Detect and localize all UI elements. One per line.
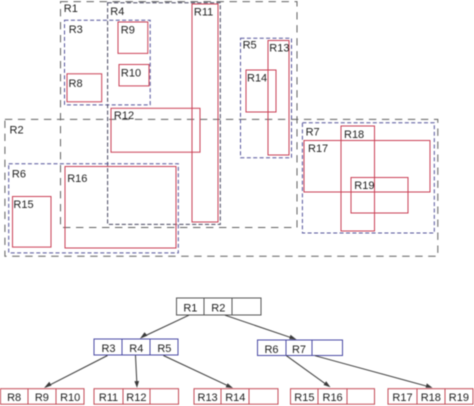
edge root R1 -> node [R3 R4 R5] xyxy=(140,315,189,338)
tree internal node [R6|R7|empty] xyxy=(258,340,343,356)
svg-text:R8: R8 xyxy=(7,392,21,404)
svg-text:R5: R5 xyxy=(243,40,257,52)
svg-text:R13: R13 xyxy=(269,43,289,55)
data rectangle R15 xyxy=(13,197,52,248)
directory rectangle R1 xyxy=(61,2,298,228)
data rectangle R8 xyxy=(67,74,102,102)
svg-text:R19: R19 xyxy=(354,180,374,192)
edge root R2 -> node [R6 R7] xyxy=(225,315,297,339)
svg-text:R13: R13 xyxy=(198,392,218,404)
svg-text:R8: R8 xyxy=(69,78,83,90)
svg-text:R6: R6 xyxy=(12,169,26,181)
tree root node [R1|R2|empty] xyxy=(177,298,262,315)
directory rectangle R3 xyxy=(65,20,151,105)
svg-text:R16: R16 xyxy=(67,173,87,185)
svg-text:R14: R14 xyxy=(247,72,267,84)
svg-text:R12: R12 xyxy=(114,110,134,122)
tree leaf node [R15|R16|empty] xyxy=(291,389,375,405)
svg-text:R4: R4 xyxy=(110,6,124,18)
tree leaf node [R13|R14|empty] xyxy=(194,389,278,405)
directory rectangle R4 xyxy=(108,3,221,225)
svg-text:R18: R18 xyxy=(421,392,441,404)
data rectangle R17 xyxy=(304,141,430,193)
svg-text:R14: R14 xyxy=(225,392,245,404)
data rectangle R10 xyxy=(119,65,149,86)
data rectangle R12 xyxy=(111,108,200,152)
data rectangle R14 xyxy=(246,70,276,112)
svg-text:R15: R15 xyxy=(13,199,33,211)
edge node R4 -> leaf [R11 R12] xyxy=(134,356,139,388)
directory rectangle R5 xyxy=(241,38,292,158)
edge node R6 -> leaf [R15 R16] xyxy=(286,356,330,388)
data rectangle R16 xyxy=(65,167,176,249)
tree leaf node [R11|R12|empty] xyxy=(94,389,179,405)
data rectangle R9 xyxy=(118,22,148,53)
svg-text:R5: R5 xyxy=(157,343,171,355)
directory rectangle R6 xyxy=(9,164,179,253)
svg-text:R15: R15 xyxy=(294,392,314,404)
data rectangle R18 xyxy=(341,126,375,231)
svg-text:R3: R3 xyxy=(69,24,83,36)
svg-text:R9: R9 xyxy=(35,392,49,404)
tree internal node [R3|R4|R5] xyxy=(94,339,178,355)
svg-text:R12: R12 xyxy=(126,392,146,404)
svg-text:R11: R11 xyxy=(99,392,118,404)
tree leaf node [R17|R18|R19] xyxy=(388,389,473,405)
svg-text:R7: R7 xyxy=(306,126,320,138)
svg-text:R9: R9 xyxy=(121,25,135,37)
svg-text:R16: R16 xyxy=(323,392,343,404)
svg-text:R10: R10 xyxy=(121,68,141,80)
svg-text:R3: R3 xyxy=(101,343,115,355)
directory rectangle R7 xyxy=(302,123,434,233)
svg-text:R1: R1 xyxy=(64,3,78,15)
data rectangle R19 xyxy=(351,178,408,214)
svg-text:R11: R11 xyxy=(194,6,213,18)
svg-text:R17: R17 xyxy=(392,392,412,404)
svg-text:R6: R6 xyxy=(264,344,278,356)
directory rectangle R2 xyxy=(5,119,438,256)
svg-text:R2: R2 xyxy=(10,125,24,137)
edge node R7 -> leaf [R17 R18 R19] xyxy=(315,356,433,388)
tree leaf node [R8|R9|R10] xyxy=(1,389,85,405)
svg-text:R18: R18 xyxy=(344,129,364,141)
svg-text:R19: R19 xyxy=(449,392,469,404)
svg-text:R7: R7 xyxy=(292,344,306,356)
svg-text:R4: R4 xyxy=(129,343,143,355)
edge node R5 -> leaf [R13 R14] xyxy=(163,356,233,389)
svg-text:R17: R17 xyxy=(308,143,328,155)
data rectangle R13 xyxy=(268,41,289,156)
data rectangle R11 xyxy=(192,4,218,222)
edge node R3 -> leaf [R8 R9 R10] xyxy=(44,356,108,389)
svg-text:R10: R10 xyxy=(60,392,80,404)
svg-text:R2: R2 xyxy=(211,303,225,315)
svg-text:R1: R1 xyxy=(183,303,197,315)
